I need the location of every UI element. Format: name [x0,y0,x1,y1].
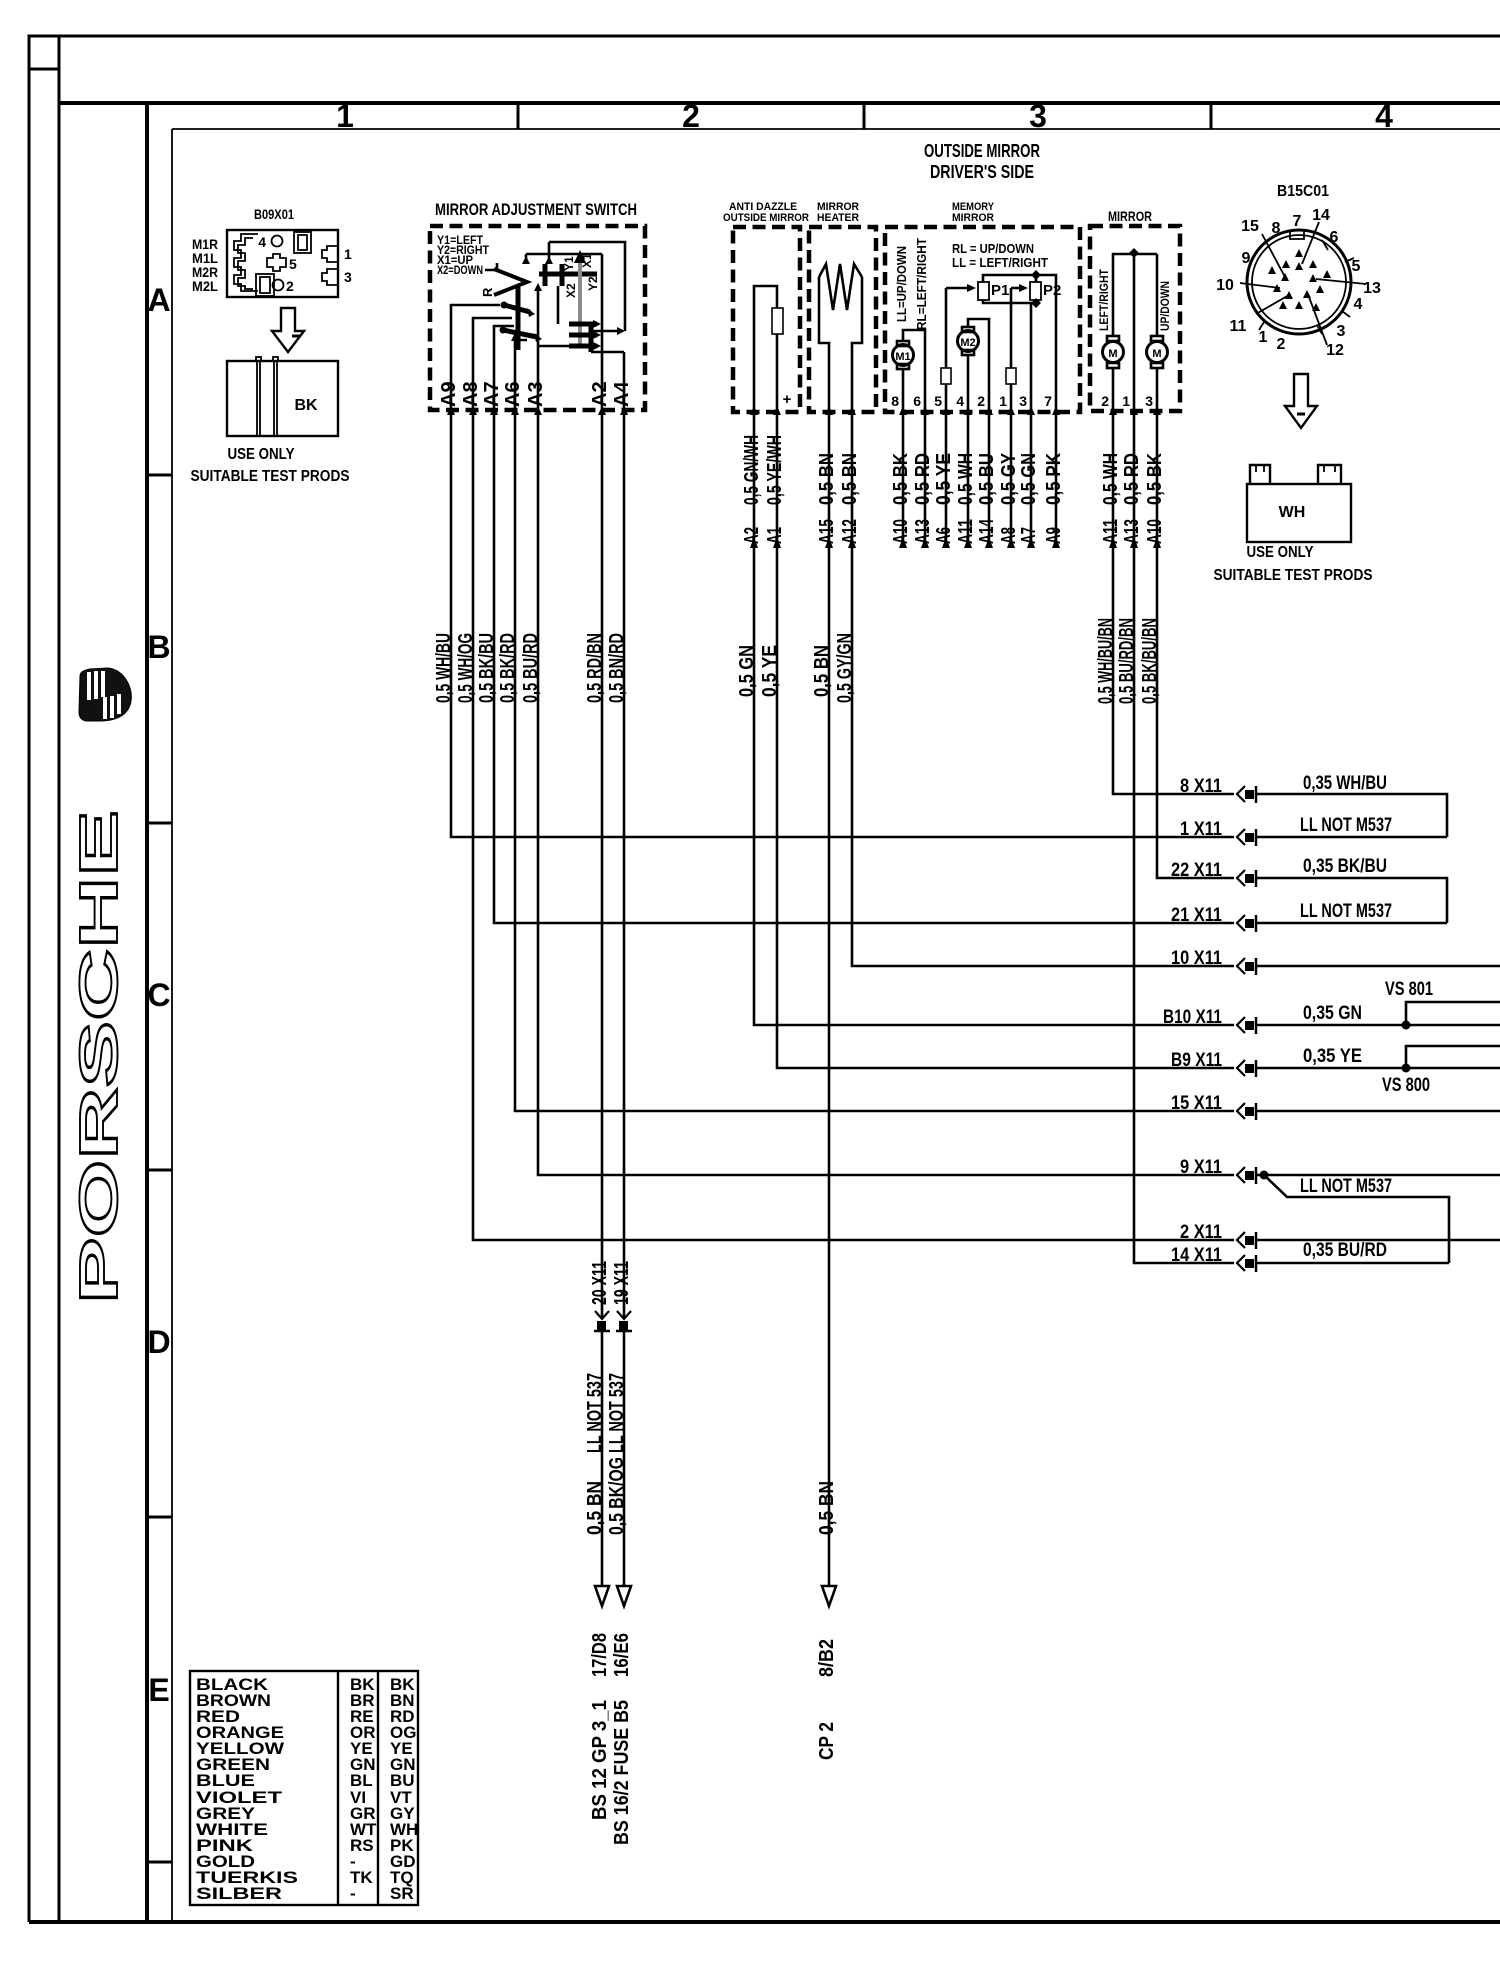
svg-text:1: 1 [344,246,352,262]
memory pin designators [890,518,1065,544]
B9 X11 right segment with VS 800 branch [1257,1046,1500,1073]
svg-text:MIRROR ADJUSTMENT SWITCH: MIRROR ADJUSTMENT SWITCH [435,200,637,219]
title OUTSIDE MIRROR DRIVER'S SIDE [924,141,1040,182]
svg-text:4: 4 [956,393,964,409]
wire anti-dazzle A1 to B9 X11 [777,415,1234,1068]
svg-text:A10: A10 [1144,519,1166,544]
mirror box pin numbers 2 1 3 [1101,393,1153,409]
svg-text:Y2: Y2 [586,276,600,291]
svg-text:0,5 WH: 0,5 WH [1100,453,1122,505]
svg-text:LL = LEFT/RIGHT: LL = LEFT/RIGHT [952,255,1048,270]
wire A4 down to 19 X11 [623,415,626,1586]
svg-text:SUITABLE TEST PRODS: SUITABLE TEST PRODS [191,468,350,485]
svg-text:12: 12 [1326,342,1344,359]
memory mirror resistors [941,288,1016,412]
mirror motor up/down M [1147,254,1168,412]
svg-text:A13: A13 [1121,519,1143,544]
svg-text:OUTSIDE MIRROR: OUTSIDE MIRROR [723,212,809,224]
svg-text:A8: A8 [460,381,482,407]
svg-text:1: 1 [1259,329,1268,346]
svg-text:11: 11 [1230,318,1247,335]
svg-text:WH: WH [1279,504,1306,521]
svg-text:9: 9 [1242,250,1251,267]
svg-text:B9 X11: B9 X11 [1171,1050,1222,1071]
8 X11 right segment [1257,794,1447,837]
mirror adjustment switch box S1 [430,226,645,410]
memory mirror potentiometer P2 [1011,282,1061,300]
svg-text:5: 5 [289,256,297,272]
svg-text:LL NOT M537: LL NOT M537 [1300,1176,1392,1197]
svg-text:CP 2: CP 2 [816,1722,838,1760]
svg-text:7: 7 [1293,213,1302,230]
svg-text:RL = UP/DOWN: RL = UP/DOWN [952,241,1034,256]
svg-text:A10: A10 [890,519,912,544]
memory pin wire size labels [890,452,1065,505]
svg-text:8/B2: 8/B2 [816,1639,838,1677]
wire A2 down to 20 X11 [601,415,604,1586]
connector B09X01 pin labels [192,234,352,294]
memory mirror motor M2 [958,319,990,412]
mirror box title [1108,208,1152,224]
switch internal wiring [451,254,624,412]
wire A6 to 15 X11 [515,410,1234,1111]
anti dazzle pin wire labels A2 A1 [741,435,786,544]
2 X11 right segment [1257,1239,1500,1242]
switch legend text [437,233,497,277]
X11 row labels [1163,776,1222,1266]
wire heater A12 to 10 X11 [852,415,1234,966]
memory mirror box [885,227,1080,412]
svg-text:0,5 GY: 0,5 GY [998,452,1020,505]
memory mirror title [952,201,995,224]
harness wire labels below plugs [433,618,1161,704]
svg-text:0,5 RD: 0,5 RD [1121,453,1143,505]
svg-text:A: A [147,282,170,318]
arrow down (test probe pointer, left) [272,308,304,352]
svg-text:9 X11: 9 X11 [1180,1157,1222,1178]
svg-text:A9: A9 [1043,527,1065,544]
svg-text:OUTSIDE MIRROR: OUTSIDE MIRROR [924,141,1040,161]
svg-text:0,5 BK/OG: 0,5 BK/OG [606,1457,628,1535]
svg-text:A11: A11 [955,519,977,544]
svg-text:A9: A9 [438,381,460,407]
svg-text:D: D [147,1324,170,1360]
svg-text:LL NOT M537: LL NOT M537 [1300,815,1392,836]
test connector BK [227,357,338,436]
svg-text:A15: A15 [816,519,838,544]
svg-text:1: 1 [1122,393,1130,409]
svg-text:0,35 WH/BU: 0,35 WH/BU [1303,773,1387,794]
connector B09X01 label [254,206,294,222]
test connector WH [1247,465,1351,542]
legend old codes [350,1675,377,1903]
svg-text:4: 4 [1354,296,1363,313]
svg-text:A6: A6 [933,527,955,544]
21 X11 right segment [1257,922,1447,925]
row ticks and labels A-E [147,282,172,1862]
wire A8 to 2 X11 [473,410,1234,1240]
memory mirror motor M1 [893,330,926,412]
svg-text:LL=UP/DOWN: LL=UP/DOWN [894,246,909,322]
svg-text:3: 3 [344,269,352,285]
svg-text:R: R [480,287,495,297]
legend new codes [390,1675,418,1903]
svg-text:15: 15 [1241,218,1259,235]
svg-text:0,5 RD: 0,5 RD [912,453,934,505]
svg-text:6: 6 [1330,229,1339,246]
svg-text:M: M [1108,348,1117,360]
svg-text:A7: A7 [481,381,503,407]
1 X11 right segment [1257,836,1447,839]
switch pin arrows [447,406,628,415]
svg-text:A11: A11 [1100,519,1122,544]
20 X11 / 19 X11 labels [589,1261,633,1305]
svg-text:X1: X1 [580,253,594,268]
svg-text:E: E [148,1672,169,1708]
15 X11 right segment [1257,1110,1500,1113]
svg-text:BS 12 GP 3_1: BS 12 GP 3_1 [589,1700,611,1820]
svg-text:17/D8: 17/D8 [589,1633,611,1677]
svg-text:DRIVER'S SIDE: DRIVER'S SIDE [930,162,1034,182]
memory pin wires with plug arrows [899,415,1060,548]
svg-text:X2: X2 [564,283,578,298]
svg-text:4: 4 [1375,98,1393,134]
svg-text:A4: A4 [611,381,633,407]
color legend table [190,1671,418,1905]
svg-text:8: 8 [1272,220,1281,237]
connector B15C01 body [1247,230,1354,334]
switch pin labels A9 A8 A7 A6 A3 A2 A4 [438,381,633,407]
note USE ONLY SUITABLE TEST PRODS (left) [191,446,350,485]
svg-text:22 X11: 22 X11 [1171,860,1222,881]
svg-text:21 X11: 21 X11 [1171,905,1222,926]
svg-text:15 X11: 15 X11 [1171,1093,1222,1114]
svg-text:4: 4 [258,234,266,250]
column ticks and labels 1-4 [336,98,1393,134]
svg-text:19 X11: 19 X11 [611,1261,633,1305]
svg-text:LL NOT 537: LL NOT 537 [606,1373,628,1453]
10 X11 right segment [1257,965,1500,968]
mirror box [1090,226,1180,411]
bottom open arrows [595,1586,836,1606]
mirror pin wire labels A11 A13 A10 [1100,453,1166,544]
wire mirror pin1 to 14 X11 [1134,415,1234,1263]
svg-text:B10 X11: B10 X11 [1163,1007,1222,1028]
svg-text:0,5 BN: 0,5 BN [816,453,838,505]
svg-text:0,5 GN: 0,5 GN [1018,453,1040,505]
memory mirror pin arrows [899,406,1060,415]
svg-text:0,5 BN: 0,5 BN [816,1481,838,1535]
svg-text:3: 3 [1337,323,1346,340]
14 X11 right segment [1257,1262,1449,1265]
svg-text:SILBER: SILBER [196,1884,282,1903]
svg-text:14 X11: 14 X11 [1171,1245,1222,1266]
svg-text:+: + [783,391,792,408]
anti dazzle pin arrows [750,406,781,415]
svg-text:BK: BK [294,397,318,414]
svg-text:0,5 BN: 0,5 BN [839,453,861,505]
wire mirror pin2 to 8 X11 [1113,415,1234,794]
svg-text:10 X11: 10 X11 [1171,948,1222,969]
heater pin wire labels A15 A12 [816,453,861,544]
svg-text:2: 2 [1277,336,1286,353]
svg-text:B15C01: B15C01 [1277,183,1329,200]
svg-text:BS 16/2 FUSE B5: BS 16/2 FUSE B5 [611,1700,633,1845]
svg-text:LL NOT 537: LL NOT 537 [584,1373,606,1453]
svg-text:A6: A6 [502,381,524,407]
svg-text:3: 3 [1029,98,1047,134]
svg-text:13: 13 [1363,280,1381,297]
mirror box node junction [1129,248,1139,412]
legend color names [196,1675,298,1903]
svg-text:16/E6: 16/E6 [611,1633,633,1677]
wire anti-dazzle A2 to B10 X11 [754,415,1234,1025]
B10 X11 right segment with VS 801 branch [1257,1002,1500,1030]
svg-text:2: 2 [1101,393,1109,409]
svg-text:B09X01: B09X01 [254,206,294,222]
svg-text:0,35 GN: 0,35 GN [1303,1003,1362,1024]
svg-text:2: 2 [286,278,294,294]
svg-text:3: 3 [1019,393,1027,409]
switch contact mechanism [500,242,626,352]
svg-text:USE ONLY: USE ONLY [228,446,295,463]
PORSCHE vertical wordmark [69,810,129,1304]
svg-text:A12: A12 [839,519,861,544]
svg-text:M: M [1152,348,1161,360]
svg-text:P2: P2 [1043,282,1061,299]
svg-text:0,35 BK/BU: 0,35 BK/BU [1303,856,1387,877]
svg-text:5: 5 [934,393,942,409]
svg-text:RL=LEFT/RIGHT: RL=LEFT/RIGHT [914,238,929,330]
svg-text:0,5 YE: 0,5 YE [933,453,955,505]
svg-text:7: 7 [1044,393,1052,409]
20 X11 / 19 X11 socket arrows (vertical) [594,1311,632,1331]
svg-text:0,5 YE/WH: 0,5 YE/WH [764,435,786,505]
anti dazzle outside mirror title [723,201,809,224]
svg-text:B: B [147,629,170,665]
mirror motor left/right M [1103,254,1158,412]
wire A7 to 21 X11 [494,410,1234,923]
svg-text:X2=DOWN: X2=DOWN [437,263,483,277]
svg-text:0,5 BK: 0,5 BK [1144,453,1166,505]
mid plug arrows on through wires [750,537,1161,548]
connector B15C01 pin numbers [1216,207,1381,359]
svg-text:0,5 PK: 0,5 PK [1043,453,1065,505]
svg-text:A2: A2 [589,381,611,407]
9 X11 right segment with LL NOT M537 branch [1257,1171,1500,1264]
svg-text:14: 14 [1312,207,1330,224]
connector B15C01 label [1277,183,1329,200]
svg-text:6: 6 [913,393,921,409]
svg-text:A3: A3 [525,381,547,407]
bottom wire size labels [584,1457,838,1535]
svg-text:A13: A13 [912,519,934,544]
svg-text:Y1: Y1 [562,256,576,271]
wire mirror pin3 to 22 X11 [1157,415,1234,878]
arrow down (test probe pointer, right) [1285,374,1317,428]
svg-text:P1: P1 [991,282,1009,299]
svg-text:PORSCHE: PORSCHE [69,810,129,1304]
connector B09X01 body [227,230,338,297]
22 X11 right segment [1257,878,1447,923]
svg-text:8 X11: 8 X11 [1180,776,1222,797]
svg-text:MIRROR: MIRROR [952,212,994,224]
svg-text:M2: M2 [960,337,975,349]
svg-text:LEFT/RIGHT: LEFT/RIGHT [1097,268,1111,331]
memory mirror potentiometer P1 [946,282,1009,300]
connector B15C01 leader lines [1240,222,1366,345]
wire heater A15 down to CP2 [828,415,831,1586]
svg-text:0,5 BN: 0,5 BN [584,1481,606,1535]
heater pin arrows [825,406,856,415]
svg-text:M2L: M2L [192,278,218,294]
svg-text:HEATER: HEATER [817,212,859,224]
svg-text:C: C [147,977,170,1013]
svg-text:0,35 YE: 0,35 YE [1303,1046,1362,1067]
Porsche crest logo [79,668,131,721]
svg-text:VS 800: VS 800 [1382,1075,1430,1096]
svg-text:0,5 BK: 0,5 BK [890,453,912,505]
svg-text:A2: A2 [741,527,763,544]
LL NOT 537 wire labels [584,1373,628,1453]
svg-text:SR: SR [390,1884,414,1903]
switch R selector chevron [480,269,527,297]
svg-text:20 X11: 20 X11 [589,1261,611,1305]
svg-text:MIRROR: MIRROR [1108,208,1152,224]
svg-text:USE ONLY: USE ONLY [1247,544,1314,561]
svg-text:-: - [350,1884,356,1903]
svg-text:2: 2 [977,393,985,409]
destination labels 17/D8 16/E6 8/B2 [589,1633,838,1677]
svg-text:0,35 BU/RD: 0,35 BU/RD [1303,1240,1387,1261]
memory mirror pin numbers [891,393,1052,409]
note USE ONLY SUITABLE TEST PRODS (right) [1214,544,1373,584]
svg-text:2 X11: 2 X11 [1180,1222,1222,1243]
wire A9 to 1 X11 [451,410,1234,837]
svg-text:1 X11: 1 X11 [1180,819,1222,840]
svg-text:0,5 GN/WH: 0,5 GN/WH [741,435,763,505]
svg-text:LL NOT M537: LL NOT M537 [1300,901,1392,922]
svg-text:3: 3 [1145,393,1153,409]
svg-text:SUITABLE TEST PRODS: SUITABLE TEST PRODS [1214,567,1373,584]
svg-text:5: 5 [1352,258,1361,275]
mirror adjustment switch title [435,200,637,219]
svg-text:0,5 BU: 0,5 BU [976,453,998,505]
svg-text:A8: A8 [998,527,1020,544]
svg-text:1: 1 [336,98,354,134]
connector B15C01 pins [1268,249,1331,311]
anti dazzle element box [733,227,800,412]
X11 wire name labels [1300,773,1433,1261]
svg-text:8: 8 [891,393,899,409]
svg-text:UP/DOWN: UP/DOWN [1158,281,1172,331]
svg-text:A1: A1 [764,527,786,544]
mirror heater title [817,201,859,224]
mirror heater element box [809,227,876,412]
mirror box pin arrows [1109,406,1161,415]
svg-text:A14: A14 [976,518,998,544]
svg-text:10: 10 [1216,277,1234,294]
svg-text:VS 801: VS 801 [1385,979,1433,1000]
X11 socket arrows [1237,786,1256,1272]
svg-text:2: 2 [682,98,700,134]
svg-text:0,5 WH: 0,5 WH [955,453,977,505]
wire A3 to 9 X11 [538,410,1234,1175]
destination labels BS / CP [589,1700,838,1845]
svg-text:M1: M1 [895,351,910,363]
svg-text:1: 1 [999,393,1007,409]
memory mirror rails [983,270,1056,412]
svg-text:A7: A7 [1018,527,1040,544]
